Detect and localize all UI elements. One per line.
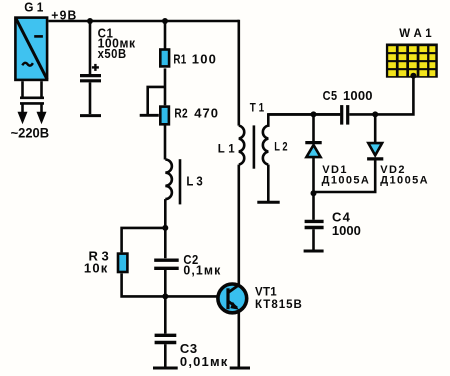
wire junction to R3 xyxy=(122,228,166,253)
wire top rail +9V xyxy=(49,20,239,23)
wire R1 top xyxy=(164,21,167,50)
svg-text:10к: 10к xyxy=(84,261,109,276)
capacitor C3 xyxy=(153,296,178,368)
svg-text:0,01мк: 0,01мк xyxy=(180,354,229,369)
svg-text:~220В: ~220В xyxy=(11,126,50,141)
wire emitter down xyxy=(238,311,241,367)
node junction VD1 top xyxy=(311,111,317,117)
svg-text:C5: C5 xyxy=(323,88,338,103)
label C4 1000 xyxy=(332,209,361,237)
antenna WA1 xyxy=(386,44,438,78)
svg-text:+9В: +9В xyxy=(51,9,77,23)
svg-text:100: 100 xyxy=(192,51,217,66)
label VT1 xyxy=(255,286,303,311)
label C2 value xyxy=(183,252,221,278)
svg-text:КТ815В: КТ815В xyxy=(255,299,303,311)
svg-text:T 1: T 1 xyxy=(250,102,265,114)
wire L2/C5/VD1 segment xyxy=(268,113,340,116)
resistor R3 xyxy=(118,254,127,272)
inductor L3 xyxy=(165,159,180,204)
diode VD2 xyxy=(314,114,384,192)
label C5 1000 xyxy=(323,88,373,103)
node junction C2/R3/base/C3 xyxy=(162,293,168,299)
node junction VD1/C4 xyxy=(311,190,317,196)
wire L1 to collector xyxy=(238,165,241,285)
svg-text:L 1: L 1 xyxy=(218,144,236,156)
ground bar L2 xyxy=(257,201,279,204)
label C3 value xyxy=(180,341,229,369)
svg-text:L 3: L 3 xyxy=(186,174,202,189)
svg-text:Д1005А: Д1005А xyxy=(322,174,371,186)
node junction top rail / R1 xyxy=(162,18,168,24)
svg-text:х50В: х50В xyxy=(98,46,127,61)
ground bar emitter xyxy=(230,367,250,370)
capacitor C5 xyxy=(342,105,348,125)
wire R3 bottom to base wire xyxy=(122,273,218,296)
wire R1-R2 xyxy=(164,68,167,105)
wire R2 to L3 xyxy=(164,125,167,160)
transistor VT1 xyxy=(218,284,247,313)
node junction top rail / C1 xyxy=(87,18,93,24)
capacitor C4 xyxy=(304,193,324,251)
transformer T1 primary L1 xyxy=(239,126,244,165)
wire collector riser (rail to L1 top) xyxy=(238,20,241,126)
label VD1 xyxy=(322,164,371,187)
wire R2 bypass loop xyxy=(148,87,165,115)
G1 mains plug wires xyxy=(18,81,47,124)
node WA1 bottom xyxy=(410,73,416,79)
label R2 470 xyxy=(174,105,219,120)
resistor R1 xyxy=(160,50,169,67)
svg-text:0,1мк: 0,1мк xyxy=(183,263,221,278)
label C1 value xyxy=(98,25,136,61)
svg-text:1000: 1000 xyxy=(332,223,361,238)
ground bar of loop xyxy=(140,114,159,117)
svg-text:1000: 1000 xyxy=(343,88,373,103)
wire C5 right to WA1 riser xyxy=(349,77,413,114)
transformer core xyxy=(253,125,256,168)
svg-text:G 1: G 1 xyxy=(24,1,43,15)
svg-text:L 2: L 2 xyxy=(274,142,287,154)
node junction L3/R3/C2 xyxy=(162,225,168,231)
capacitor C2 xyxy=(154,228,179,297)
label R1 100 xyxy=(173,51,217,66)
svg-text:VT1: VT1 xyxy=(255,286,277,298)
wire L3 to junction xyxy=(164,199,167,228)
label R3 10k xyxy=(84,249,109,276)
power supply G1 xyxy=(15,18,47,80)
svg-text:470: 470 xyxy=(194,105,219,120)
svg-text:R1: R1 xyxy=(173,51,186,66)
svg-text:W A 1: W A 1 xyxy=(399,28,432,40)
transformer secondary L2 xyxy=(263,126,268,165)
svg-text:R2: R2 xyxy=(174,105,188,120)
svg-text:Д1005А: Д1005А xyxy=(380,174,429,186)
capacitor C1 xyxy=(80,21,101,116)
wire L2 top to C5 xyxy=(268,114,340,127)
node junction C5/VD2/WA1 xyxy=(372,111,378,117)
resistor R2 xyxy=(160,107,169,125)
diode VD1 xyxy=(305,114,321,193)
wire L2 bottom xyxy=(267,165,270,201)
label VD2 xyxy=(380,164,429,187)
